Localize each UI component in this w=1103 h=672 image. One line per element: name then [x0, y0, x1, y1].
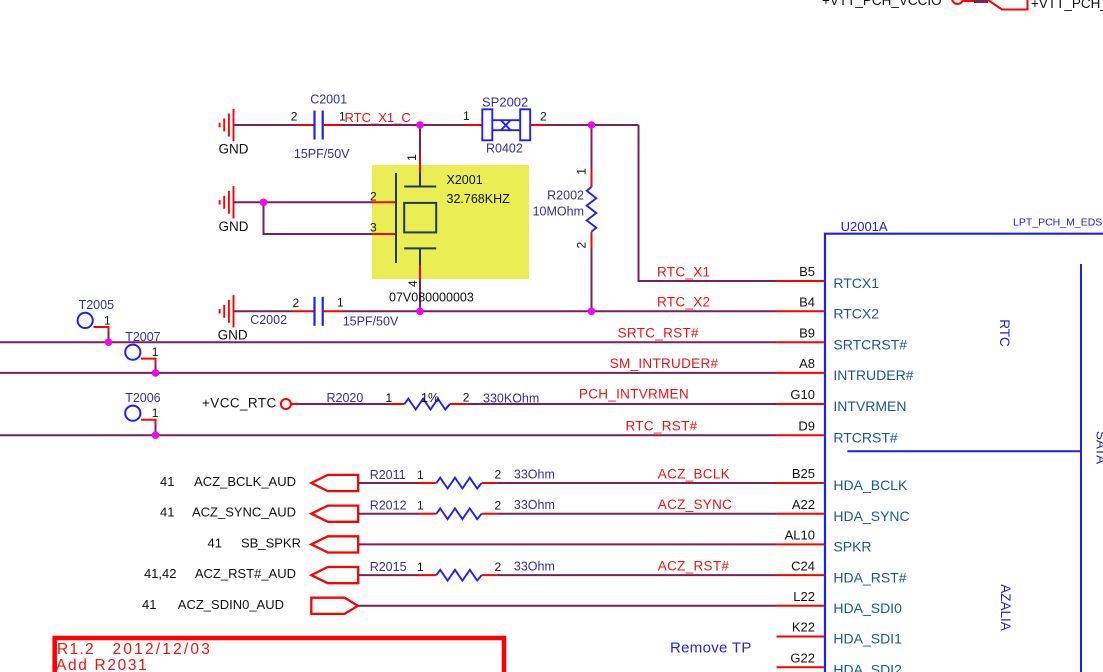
svg-text:SP2002: SP2002: [482, 95, 528, 110]
svg-text:+VTT_PCH_: +VTT_PCH_: [1031, 0, 1103, 11]
pin stub red R2020 pin2: [450, 403, 467, 405]
pin stub A8: [777, 372, 825, 374]
pin stub G22: [777, 666, 825, 668]
pin stub red crystal pin2: [372, 201, 395, 203]
pin stub red R2012 pin1: [417, 513, 436, 515]
pin stub D9: [777, 434, 825, 436]
ground GND3: [220, 295, 234, 327]
svg-text:R2012: R2012: [370, 499, 407, 513]
svg-text:T2007: T2007: [125, 330, 160, 344]
svg-text:07V080000003: 07V080000003: [389, 291, 474, 305]
pin stub red C2002 pin2: [293, 310, 314, 312]
svg-text:RTC_X2: RTC_X2: [657, 295, 710, 310]
svg-text:T2005: T2005: [79, 298, 114, 312]
svg-text:41,42: 41,42: [144, 566, 177, 581]
pin stub B25: [777, 482, 825, 484]
svg-text:SRTC_RST#: SRTC_RST#: [618, 326, 699, 341]
wire GND2 branch down to crystal pin3: [264, 202, 373, 234]
wire RTC_RST# row: [0, 434, 777, 436]
wire SM_INTRUDER# row: [0, 372, 777, 374]
pin stub AL10: [777, 543, 825, 545]
svg-text:HDA_SDI1: HDA_SDI1: [833, 631, 902, 647]
svg-text:41: 41: [142, 597, 156, 612]
svg-text:ACZ_BCLK_AUD: ACZ_BCLK_AUD: [194, 474, 296, 489]
junction node T2006: [152, 431, 160, 439]
svg-text:R2015: R2015: [370, 560, 407, 574]
pin stub red R2015 pin1: [417, 574, 436, 576]
pin stub G10: [777, 403, 825, 405]
wire R2015 to chip pin C24: [498, 574, 777, 576]
svg-text:1: 1: [417, 499, 424, 513]
svg-text:41: 41: [160, 474, 174, 489]
svg-text:2: 2: [293, 296, 300, 310]
power port circle +VCC_RTC: [281, 399, 291, 409]
svg-text:SB_SPKR: SB_SPKR: [241, 535, 301, 550]
wire SRTC_RST# row: [0, 341, 777, 343]
wire red from power circle: [964, 0, 976, 2]
svg-text:ACZ_SDIN0_AUD: ACZ_SDIN0_AUD: [178, 597, 284, 612]
pin stub red T2006: [141, 420, 156, 426]
svg-text:1%: 1%: [421, 391, 439, 405]
svg-text:1: 1: [104, 313, 111, 327]
wire C2001 to junction to SP2002: [341, 124, 466, 126]
pin stub B9: [777, 341, 825, 343]
wire red polyline to +VTT_PCH_ label: [988, 0, 1028, 10]
svg-text:4: 4: [406, 280, 420, 287]
svg-text:RTCRST#: RTCRST#: [833, 429, 898, 445]
svg-text:G10: G10: [790, 387, 815, 402]
pin stub B4: [777, 310, 825, 312]
wire T2007 down to SM_INTRUDER# row: [155, 364, 157, 373]
svg-text:B4: B4: [799, 295, 815, 310]
wire maroon segment top: [974, 0, 988, 3]
svg-text:HDA_SDI2: HDA_SDI2: [833, 661, 902, 672]
svg-text:RTC: RTC: [997, 319, 1012, 347]
wire C2002 to chip pin B4 (RTC_X2 row): [343, 310, 777, 312]
wire R2002 pin2 down to RTC_X2 row: [591, 249, 593, 312]
pin stub C24: [777, 574, 825, 576]
pin stub red C2002 pin1: [323, 310, 343, 312]
svg-text:RTCX1: RTCX1: [833, 275, 879, 291]
svg-text:1: 1: [463, 109, 470, 123]
wire SP2002 pin2 to corner: [545, 124, 639, 126]
svg-text:2: 2: [370, 190, 377, 204]
pin stub red C2001 pin1: [323, 124, 341, 126]
svg-text:ACZ_SYNC_AUD: ACZ_SYNC_AUD: [192, 505, 296, 520]
capacitor C2002: [315, 297, 323, 326]
testpoint T2005: [78, 313, 93, 328]
port arrow ACZ_RST#_AUD: [311, 567, 358, 583]
svg-text:D9: D9: [798, 418, 815, 433]
svg-text:15PF/50V: 15PF/50V: [294, 147, 350, 161]
svg-text:1: 1: [152, 345, 159, 359]
svg-text:T2006: T2006: [125, 391, 160, 405]
svg-text:A8: A8: [799, 356, 815, 371]
svg-text:X2001: X2001: [447, 173, 483, 187]
svg-text:1: 1: [152, 406, 159, 420]
svg-text:U2001A: U2001A: [841, 219, 888, 234]
svg-text:1: 1: [574, 168, 588, 175]
svg-text:ACZ_RST#: ACZ_RST#: [658, 558, 730, 573]
svg-text:A22: A22: [792, 497, 815, 512]
svg-text:+VTT_PCH_VCCIO: +VTT_PCH_VCCIO: [822, 0, 942, 8]
svg-text:R0402: R0402: [486, 141, 523, 155]
testpoint T2006: [125, 406, 140, 421]
svg-text:L22: L22: [793, 589, 815, 604]
svg-text:33Ohm: 33Ohm: [514, 498, 555, 512]
chip internal divider horizontal (RTC section bottom): [847, 450, 1081, 452]
wire SDIN0 to chip pin L22: [358, 605, 777, 607]
pin stub red crystal pin3: [372, 233, 395, 235]
svg-text:INTRUDER#: INTRUDER#: [833, 367, 913, 383]
svg-text:GND: GND: [219, 141, 249, 156]
pin stub red T2007: [141, 359, 156, 365]
pin stub red crystal pin4: [419, 266, 421, 281]
svg-text:B25: B25: [792, 466, 815, 481]
svg-text:15PF/50V: 15PF/50V: [343, 314, 399, 328]
junction node T2007: [152, 369, 160, 377]
svg-text:2012/12/03: 2012/12/03: [113, 641, 213, 658]
svg-text:2: 2: [540, 110, 547, 124]
svg-text:2: 2: [574, 242, 588, 249]
resistor R2015 zigzag: [436, 570, 481, 581]
svg-text:AL10: AL10: [785, 528, 815, 543]
svg-text:HDA_BCLK: HDA_BCLK: [833, 477, 908, 493]
op-amp U2001A outline (PCH block): [825, 234, 1103, 672]
ground GND1: [220, 109, 234, 141]
resistor R2011 zigzag: [436, 478, 481, 489]
svg-text:HDA_SDI0: HDA_SDI0: [833, 600, 902, 616]
svg-text:33Ohm: 33Ohm: [514, 560, 555, 574]
yellow highlight on crystal X2001: [372, 165, 529, 279]
svg-text:LPT_PCH_M_EDS: LPT_PCH_M_EDS: [1013, 216, 1102, 228]
pin stub A22: [777, 513, 825, 515]
pin stub K22: [777, 636, 825, 638]
wire GND1 to C2001 pin2: [234, 124, 298, 126]
pin stub red R2011 pin2: [482, 482, 498, 484]
wire SB_SPKR to chip pin AL10: [358, 543, 776, 545]
svg-text:41: 41: [160, 505, 174, 520]
wire arrow to R2011: [358, 482, 418, 484]
svg-text:33Ohm: 33Ohm: [514, 467, 555, 481]
svg-text:SRTCRST#: SRTCRST#: [833, 336, 907, 352]
pin stub red R2015 pin2: [482, 574, 498, 576]
wire crystal pin4 down to RTC_X2 row: [419, 280, 421, 311]
wire +VCC_RTC to R2020: [299, 403, 389, 405]
svg-text:ACZ_RST#_AUD: ACZ_RST#_AUD: [195, 566, 296, 581]
pin stub red R2011 pin1: [417, 482, 436, 484]
svg-text:2: 2: [463, 391, 470, 405]
wire GND2 to crystal pin2: [234, 201, 373, 203]
svg-text:C2001: C2001: [310, 92, 347, 106]
svg-text:SM_INTRUDER#: SM_INTRUDER#: [610, 356, 719, 371]
junction node T2005: [105, 338, 113, 346]
spark gap SP2002: [482, 109, 530, 140]
svg-text:ACZ_BCLK: ACZ_BCLK: [658, 466, 730, 481]
svg-text:B9: B9: [799, 325, 815, 340]
testpoint T2007: [125, 345, 140, 360]
port arrow SB_SPKR: [311, 536, 358, 552]
junction node at R2002 top: [588, 121, 596, 129]
pin stub L22: [777, 605, 825, 607]
svg-text:ACZ_SYNC: ACZ_SYNC: [658, 497, 732, 512]
resistor R2012 zigzag: [436, 508, 481, 519]
svg-text:B5: B5: [799, 264, 815, 279]
svg-text:G22: G22: [790, 650, 815, 665]
svg-text:HDA_SYNC: HDA_SYNC: [833, 508, 909, 524]
pin stub red R2002 pin2: [591, 232, 593, 249]
svg-text:3: 3: [370, 221, 377, 235]
wire arrow to R2015: [358, 574, 418, 576]
svg-text:HDA_RST#: HDA_RST#: [833, 569, 906, 585]
svg-text:1: 1: [337, 296, 344, 310]
svg-text:R2002: R2002: [547, 188, 584, 202]
wire corner down to RTC_X1 pin row: [639, 125, 777, 281]
junction node RTC_X1_C at crystal pin1: [416, 121, 424, 129]
svg-text:INTVRMEN: INTVRMEN: [833, 398, 906, 414]
pin stub red R2002 pin1: [591, 171, 593, 188]
svg-text:RTCX2: RTCX2: [833, 306, 879, 322]
svg-text:SPKR: SPKR: [833, 539, 871, 555]
pin stub red C2001 pin2: [297, 124, 314, 126]
svg-text:AZALIA: AZALIA: [998, 584, 1013, 631]
pin stub red T2005: [94, 327, 109, 333]
port arrow ACZ_SYNC_AUD: [311, 506, 358, 522]
pin stub red crystal pin1: [419, 156, 421, 173]
pin stub red SP2002 pin2: [530, 124, 545, 126]
svg-text:1: 1: [417, 560, 424, 574]
svg-text:R2011: R2011: [370, 468, 406, 482]
svg-text:1: 1: [405, 154, 419, 161]
pin stub red SP2002 pin1: [466, 124, 482, 126]
wire T2006 down to RTC_RST# row: [155, 425, 157, 435]
svg-text:RTC_X1_C: RTC_X1_C: [345, 110, 411, 125]
capacitor C2001: [315, 111, 323, 140]
junction node crystal pin4 on RTC_X2 row: [416, 308, 424, 316]
svg-text:RTC_X1: RTC_X1: [657, 264, 710, 279]
svg-text:2: 2: [495, 468, 502, 482]
svg-text:RTC_RST#: RTC_RST#: [626, 419, 698, 434]
wire junction down toward crystal pin 1: [419, 125, 421, 156]
svg-text:10MOhm: 10MOhm: [533, 204, 584, 218]
port arrow ACZ_SDIN0_AUD (output): [311, 598, 358, 614]
wire R2011 to chip pin B25: [498, 482, 777, 484]
svg-text:R2020: R2020: [327, 391, 364, 405]
svg-text:K22: K22: [792, 620, 815, 635]
svg-text:1: 1: [417, 468, 424, 482]
wire arrow to R2012: [358, 513, 418, 515]
revision box (red): [55, 638, 504, 672]
junction node GND2 branch: [260, 199, 268, 207]
pin stub B5: [777, 280, 825, 282]
resistor R2002 (vertical zigzag): [587, 187, 597, 232]
svg-text:C2002: C2002: [250, 313, 287, 327]
crystal X2001 symbol: [396, 173, 436, 266]
svg-text:R1.2: R1.2: [57, 641, 95, 658]
junction node R2002 pin2 on RTC_X2 row: [588, 308, 596, 316]
ground GND2: [220, 186, 234, 218]
svg-text:2: 2: [291, 109, 298, 123]
svg-text:PCH_INTVRMEN: PCH_INTVRMEN: [579, 387, 689, 402]
port arrow ACZ_BCLK_AUD: [311, 475, 358, 491]
svg-text:SATA: SATA: [1094, 431, 1103, 464]
svg-text:GND: GND: [218, 328, 248, 343]
pin stub red R2012 pin2: [482, 513, 498, 515]
svg-text:32.768KHZ: 32.768KHZ: [447, 192, 511, 206]
svg-text:Remove TP: Remove TP: [670, 639, 752, 656]
svg-text:2: 2: [495, 560, 502, 574]
wire R2020 to chip pin G10: [467, 403, 776, 405]
wire T2005 down to SRTC_RST# row: [108, 332, 110, 342]
power port circle (cut off at top): [952, 0, 963, 4]
svg-text:Add R2031: Add R2031: [56, 657, 148, 672]
svg-text:41: 41: [208, 535, 222, 550]
wire red from +VCC_RTC circle: [291, 403, 300, 405]
wire R2002 junction down to pin1 stub: [591, 125, 593, 171]
svg-text:C24: C24: [791, 558, 815, 573]
svg-text:GND: GND: [219, 219, 249, 234]
wire R2012 to chip pin A22: [498, 513, 777, 515]
chip internal divider vertical: [1080, 264, 1082, 672]
wire GND3 to C2002: [234, 310, 294, 312]
svg-text:+VCC_RTC: +VCC_RTC: [202, 395, 277, 410]
resistor R2020 zigzag: [405, 399, 450, 410]
svg-text:2: 2: [495, 498, 502, 512]
pin stub red R2020 pin1: [388, 403, 404, 405]
